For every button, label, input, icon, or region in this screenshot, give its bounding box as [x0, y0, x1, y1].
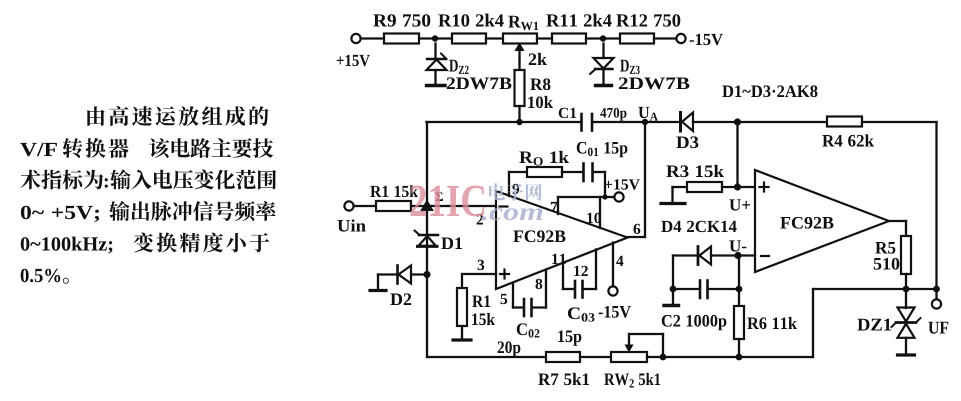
wire +15V node [558, 172, 614, 200]
resistor Ro 1k [509, 167, 583, 177]
resistor R9 750 [384, 34, 435, 44]
pin 5 of U1 [512, 284, 514, 308]
node junction R9/R10/Dz2 [432, 35, 438, 41]
resistor R4 62k [738, 117, 937, 127]
wire D4 down to C2 [670, 256, 677, 293]
resistor R10 2k4 [452, 34, 503, 44]
resistor R3 15k with ground [661, 182, 738, 204]
node junction R6/bottom rail [736, 354, 743, 361]
zener diode Dz2 2DW7B [427, 44, 447, 86]
node junction D1/D2 [423, 271, 430, 278]
resistor R7 5k1 [546, 352, 611, 362]
wire bottom rail [427, 356, 546, 358]
label D1-D3 2AK8 [722, 85, 817, 97]
node junction R8/rail [516, 119, 522, 125]
resistor R6 11k [734, 256, 744, 358]
pin 12 of U1 [595, 250, 597, 290]
description text line 5 [21, 232, 270, 253]
op-amp U1 FC92B [496, 191, 628, 289]
pin 11 of U1 [562, 262, 564, 290]
node summing junction [421, 201, 433, 211]
description text line 2 [20, 138, 273, 158]
ground C2 [664, 289, 679, 306]
resistor R5 510 [889, 221, 911, 289]
capacitor C2 1000p [673, 281, 739, 299]
terminal Uin [344, 201, 376, 210]
description text line 4 [21, 201, 276, 222]
node junction R11/R12/Dz3 [600, 35, 606, 41]
diode D4 [673, 247, 738, 265]
node UA [642, 119, 648, 125]
diode D1 2AK8 [415, 231, 439, 247]
terminal +15V [351, 34, 384, 43]
terminal +15V U1 [614, 192, 623, 201]
capacitor C02 20p [513, 299, 546, 316]
watermark 21IC dianziwang com [411, 183, 543, 220]
capacitor C1 470p [582, 114, 646, 131]
wire [435, 37, 452, 39]
pin 4 of U1 -15V [608, 243, 617, 296]
node U+ [734, 183, 741, 190]
wire to inverting input [427, 205, 496, 207]
zener diode Dz3 2DW7B [590, 44, 614, 86]
pin 7 of U1 [557, 197, 559, 214]
description text line 6 [21, 269, 69, 284]
resistor R11 2k4 [537, 34, 603, 44]
node junction UF [933, 286, 940, 293]
node junction R5/DZ1 [903, 286, 910, 293]
pin 9 of U1 [508, 172, 510, 196]
node U- [734, 252, 755, 259]
pin 6 output of U1 [628, 122, 646, 237]
resistor R12 750 [603, 34, 676, 44]
label D4 2CK14 [661, 221, 736, 232]
diode D2 2AK8 [370, 266, 427, 291]
resistor R8 10k [515, 61, 525, 122]
terminal -15V [676, 34, 685, 43]
description text line 3 [20, 170, 276, 190]
op-amp U2 FC92B [755, 170, 889, 272]
node junction RW2/bottom rail [647, 354, 739, 361]
description text line 1 [87, 106, 268, 126]
potentiometer RW1 2k [503, 34, 537, 62]
pin 8 of U1 [545, 270, 547, 308]
capacitor C03 15p [563, 281, 596, 298]
wire output rail [813, 288, 937, 290]
wire U+ vertical [738, 122, 756, 187]
node junction D3/R4/U+ [734, 118, 741, 125]
pin 10 of U1 [599, 197, 601, 228]
wire left vertical [426, 122, 428, 357]
node junction C2/R6 [736, 286, 743, 293]
wire middle rail [427, 121, 582, 123]
wire bottom rail right [739, 289, 813, 357]
diode D3 [645, 113, 738, 132]
capacitor C01 15p [584, 164, 606, 182]
potentiometer RW2 5k1 [611, 334, 663, 362]
resistor R1 15k input [376, 201, 427, 211]
terminal UF [932, 289, 941, 309]
wire right edge down [935, 122, 937, 289]
zener DZ1 bidirectional [892, 289, 921, 355]
pin 3 of U1 with resistor R1 15k [453, 274, 496, 340]
